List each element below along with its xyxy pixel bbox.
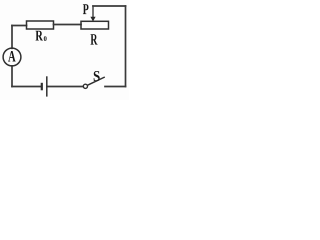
label R0	[36, 31, 43, 41]
label S	[94, 71, 100, 81]
wire between R0 and R	[54, 24, 82, 26]
label P	[83, 4, 89, 14]
wiper arrowhead on R	[90, 17, 95, 22]
wire battery to switch	[47, 86, 83, 88]
wiper arrow P stem	[92, 6, 94, 18]
ammeter A1	[3, 48, 21, 66]
battery negative short plate	[41, 83, 43, 91]
wire bottom (corner to battery)	[12, 86, 42, 88]
label R	[91, 34, 98, 44]
resistor R0	[27, 21, 54, 29]
wire top-left horizontal (corner to R0)	[12, 25, 27, 27]
switch contact circle	[83, 84, 87, 88]
wire left vertical (corner to ammeter)	[11, 26, 13, 49]
switch lever	[88, 77, 105, 85]
wire bottom-left vertical (ammeter to corner)	[11, 66, 13, 87]
rheostat R	[81, 21, 109, 29]
battery cell	[42, 76, 47, 96]
wire right vertical	[125, 6, 127, 87]
battery positive long plate	[46, 76, 48, 96]
ammeter circle	[3, 48, 21, 66]
switch S	[83, 77, 105, 88]
wire top (wiper to right corner)	[93, 5, 126, 7]
ammeter letter A	[8, 51, 16, 62]
wire bottom-right (corner to switch)	[105, 86, 126, 88]
label R0 subscript 0	[44, 36, 47, 41]
